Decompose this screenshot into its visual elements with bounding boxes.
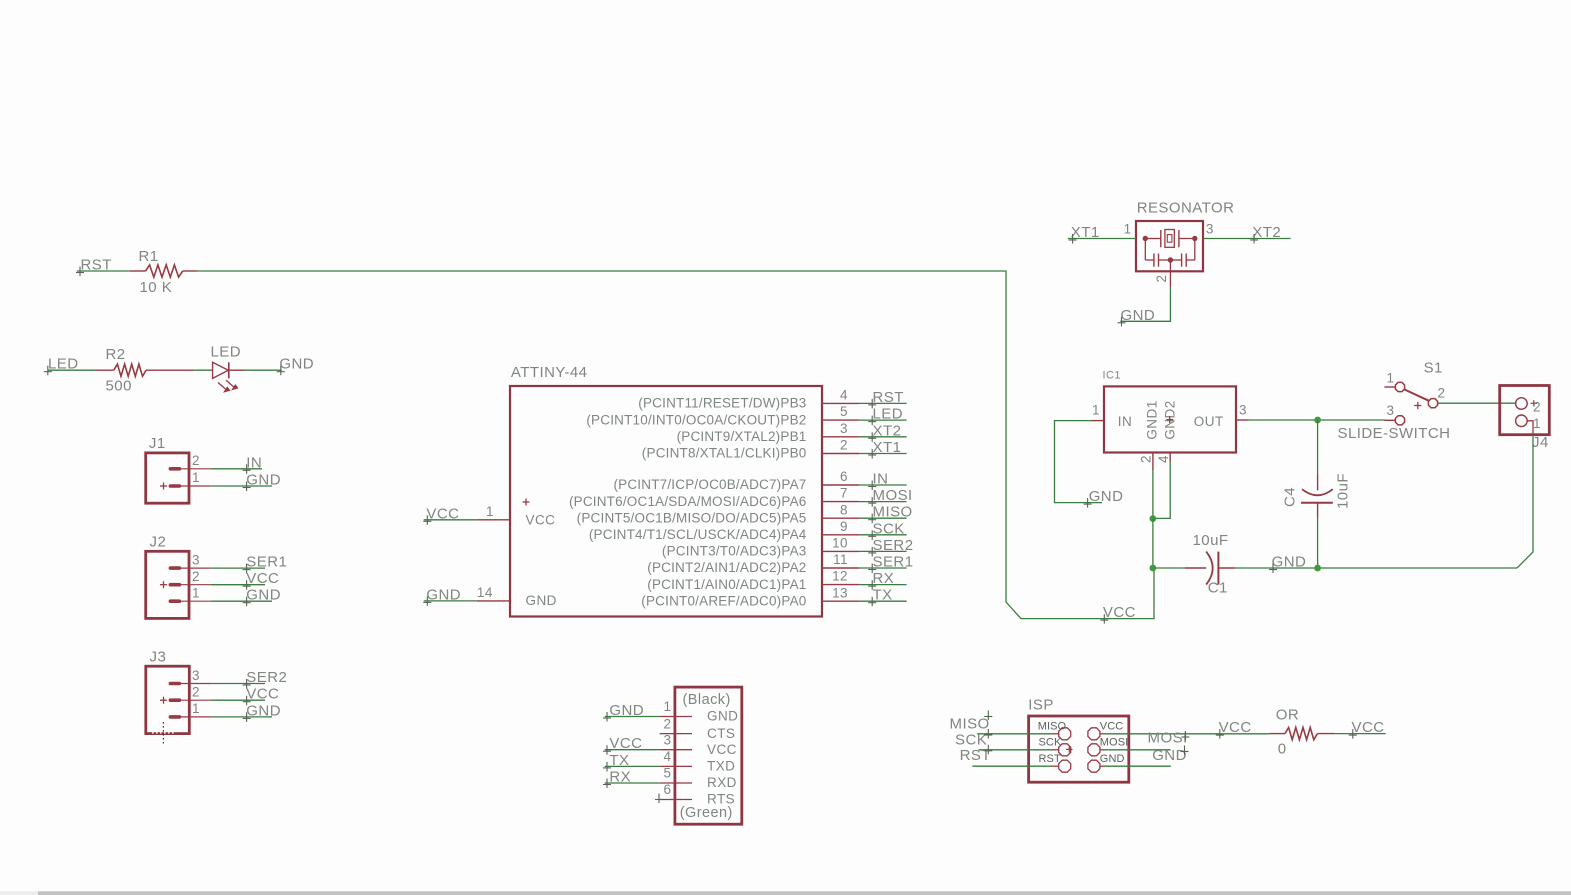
value 10uF (C4)	[1335, 473, 1352, 509]
svg-text:IC1: IC1	[1103, 370, 1121, 382]
svg-text:RX: RX	[873, 570, 895, 587]
wire J2 pin1 to GND	[211, 600, 272, 602]
net label RX (ATTINY-44)	[868, 570, 894, 590]
svg-text:3: 3	[1206, 222, 1214, 237]
svg-text:GND: GND	[1152, 747, 1187, 764]
svg-text:MOSI: MOSI	[1100, 737, 1129, 749]
net label MISO (ISP)	[950, 711, 993, 733]
svg-text:VCC: VCC	[1352, 719, 1385, 736]
svg-text:GND: GND	[707, 709, 738, 724]
net label LED	[44, 356, 79, 376]
svg-text:SCK: SCK	[955, 731, 987, 748]
wire OUT junction down to C4	[1317, 420, 1319, 475]
net label GND (U1 pin14)	[423, 586, 461, 606]
label (Black)	[683, 692, 731, 708]
wire net MOSI stub (ATTINY-44)	[859, 501, 906, 503]
svg-text:RXD: RXD	[707, 775, 737, 790]
svg-text:CTS: CTS	[707, 726, 735, 741]
wire J2 pin3 to SER1	[211, 567, 265, 569]
svg-text:MISO: MISO	[873, 504, 913, 521]
wire IC1 pin4 down	[1153, 462, 1170, 518]
svg-text:(PCINT9/XTAL2)PB1: (PCINT9/XTAL2)PB1	[677, 429, 807, 444]
net label LED (ATTINY-44)	[868, 406, 903, 426]
wire junction down to VCC node	[1152, 519, 1154, 568]
svg-text:ATTINY-44: ATTINY-44	[511, 364, 588, 381]
svg-text:GND: GND	[609, 702, 644, 719]
connector FTDI body	[675, 687, 742, 824]
svg-text:VCC: VCC	[426, 505, 459, 522]
svg-text:6: 6	[664, 782, 672, 797]
wire FTDI GND	[605, 716, 660, 718]
wire J3 pin1 to GND	[211, 716, 272, 718]
label SLIDE-SWITCH	[1338, 425, 1451, 442]
pin name GND inside U1	[526, 593, 557, 608]
connector J4	[1500, 386, 1550, 435]
net label XT1 (ATTINY-44)	[868, 439, 901, 459]
wire resonator pin3 to XT2	[1203, 238, 1291, 240]
svg-text:1: 1	[1124, 222, 1132, 237]
pin 14 GND (ATTINY-44)	[477, 585, 510, 601]
svg-text:6: 6	[840, 469, 848, 484]
label C4	[1282, 487, 1299, 507]
net label SER2 (ATTINY-44)	[868, 537, 913, 557]
pin number 3 (J2)	[192, 552, 200, 567]
pin name SCK (ISP)	[1039, 737, 1062, 749]
junction (OUT / C4)	[1314, 417, 1321, 424]
wire SCK to ISP	[979, 749, 1059, 751]
svg-text:8: 8	[840, 502, 848, 517]
wire FTDI TX	[605, 765, 660, 767]
svg-text:VCC: VCC	[1219, 719, 1252, 736]
svg-text:VCC: VCC	[1100, 721, 1124, 733]
svg-text:SER1: SER1	[873, 554, 914, 571]
pin 10 SER2 (ATTINY-44)	[662, 536, 859, 559]
svg-text:GND: GND	[1089, 488, 1124, 505]
svg-text:1: 1	[192, 701, 200, 716]
net label SER2	[243, 669, 288, 689]
switch S1	[1384, 382, 1437, 425]
pin 7 MOSI (ATTINY-44)	[569, 486, 859, 509]
resistor R1	[130, 265, 197, 277]
pin 2 (IC1)	[1139, 453, 1154, 471]
pin number 2 (J3)	[192, 685, 200, 700]
wire ISP VCC out	[1100, 733, 1270, 735]
pin 9 SCK (ATTINY-44)	[589, 519, 860, 542]
svg-text:4: 4	[1156, 455, 1171, 463]
svg-text:VCC: VCC	[246, 570, 279, 587]
label R2	[106, 346, 126, 363]
connector J3	[146, 666, 211, 743]
label ATTINY-44	[511, 364, 588, 381]
svg-text:RST: RST	[873, 389, 904, 406]
pin 13 TX (ATTINY-44)	[641, 585, 859, 608]
wire GND to U1 pin14	[424, 600, 477, 602]
svg-text:VCC: VCC	[707, 742, 737, 757]
label J1	[149, 435, 166, 452]
svg-text:5: 5	[840, 404, 848, 419]
pin 1 GND (FTDI)	[660, 699, 739, 724]
net label GND (LED row)	[277, 356, 314, 376]
svg-text:RST: RST	[960, 747, 991, 764]
pin name MISO (ISP)	[1038, 721, 1067, 733]
wire net LED stub (ATTINY-44)	[859, 419, 906, 421]
wire FTDI VCC	[605, 749, 660, 751]
svg-text:SER2: SER2	[873, 537, 914, 554]
net label VCC (FTDI)	[603, 735, 642, 755]
svg-text:GND: GND	[246, 587, 281, 604]
wire GND rail (right of C1)	[1235, 567, 1517, 569]
svg-text:7: 7	[840, 486, 848, 501]
svg-text:9: 9	[840, 519, 848, 534]
pin 2 CTS (FTDI)	[660, 716, 736, 741]
net label GND (J2)	[243, 587, 281, 607]
svg-text:VCC: VCC	[526, 512, 556, 527]
wire net SER1 stub (ATTINY-44)	[859, 567, 906, 569]
svg-text:XT1: XT1	[873, 439, 902, 456]
svg-text:XT2: XT2	[873, 422, 902, 439]
wire J3 pin3 to SER2	[211, 683, 265, 685]
wire ISP GND out	[1100, 765, 1171, 767]
svg-text:TXD: TXD	[707, 759, 735, 774]
svg-text:2: 2	[1438, 386, 1446, 401]
svg-text:(PCINT1/AIN0/ADC1)PA1: (PCINT1/AIN0/ADC1)PA1	[647, 577, 806, 592]
svg-text:500: 500	[106, 378, 132, 395]
pin 3 (IC1)	[1236, 403, 1249, 420]
svg-text:OUT: OUT	[1194, 414, 1224, 429]
net label GND (J1)	[243, 472, 281, 492]
wire GND rail (left of C1)	[1153, 567, 1185, 569]
junction (C4 / GND rail)	[1314, 565, 1321, 572]
net label MOSI (ATTINY-44)	[868, 487, 912, 507]
svg-text:IN: IN	[1118, 414, 1132, 429]
wire RST to R1	[77, 270, 130, 272]
svg-text:GND: GND	[526, 593, 557, 608]
svg-text:R1: R1	[139, 248, 159, 265]
pin number 2 (J2)	[192, 569, 200, 584]
svg-text:XT2: XT2	[1252, 224, 1281, 241]
junction (VCC node)	[1150, 565, 1157, 572]
svg-text:S1: S1	[1424, 360, 1443, 377]
LED (indicator diode)	[213, 362, 244, 392]
net label GND (rail)	[1269, 554, 1306, 574]
value 500	[106, 378, 132, 395]
svg-text:2: 2	[664, 716, 672, 731]
value 0 (OR)	[1278, 741, 1287, 758]
svg-text:IN: IN	[873, 471, 889, 488]
wire net TX stub (ATTINY-44)	[859, 600, 906, 602]
net label XT1	[1069, 224, 1100, 244]
wire XT1 to resonator pin1	[1068, 238, 1136, 240]
svg-text:GND: GND	[279, 356, 314, 373]
net label GND (FTDI)	[603, 702, 644, 722]
pin number 2 (S1)	[1438, 386, 1446, 401]
pin 5 RXD (FTDI)	[660, 766, 737, 791]
svg-text:1: 1	[192, 470, 200, 485]
wire OR to VCC	[1334, 733, 1386, 735]
net label TX (ATTINY-44)	[868, 587, 892, 607]
svg-text:C1: C1	[1208, 580, 1228, 597]
wire J1 pin2 to IN	[211, 468, 262, 470]
wire FTDI RX	[605, 782, 660, 784]
svg-text:IN: IN	[246, 454, 262, 471]
pin 6 IN (ATTINY-44)	[613, 469, 859, 492]
wire J2 pin2 to VCC	[211, 584, 265, 586]
net label VCC (left of OR)	[1216, 719, 1252, 739]
svg-text:GND: GND	[1100, 753, 1125, 765]
svg-text:GND: GND	[426, 586, 461, 603]
wire IC1 pin3 OUT to switch	[1249, 419, 1386, 421]
pin number 1 (J2)	[192, 586, 200, 601]
svg-text:GND1: GND1	[1145, 400, 1160, 439]
svg-text:(Black): (Black)	[683, 692, 731, 708]
wire VCC to U1 pin1	[424, 519, 477, 521]
pin name MOSI (ISP)	[1100, 737, 1129, 749]
svg-text:RTS: RTS	[707, 792, 735, 807]
svg-text:MISO: MISO	[1038, 721, 1067, 733]
label (Green)	[680, 805, 733, 821]
svg-text:0: 0	[1278, 741, 1287, 758]
wire IC1 pin1 to GND	[1055, 421, 1103, 503]
connector J1	[146, 453, 211, 503]
wire J3 pin2 to VCC	[211, 699, 265, 701]
svg-text:4: 4	[840, 388, 848, 403]
net label GND (IC1 input)	[1084, 488, 1124, 508]
pin number 2 (resonator)	[1154, 275, 1169, 283]
connector J2	[146, 551, 211, 618]
wire net RST stub (ATTINY-44)	[859, 402, 906, 404]
wire net MISO stub (ATTINY-44)	[859, 517, 906, 519]
net label RX (FTDI)	[603, 769, 631, 789]
resistor OR (0 ohm)	[1269, 728, 1334, 740]
svg-text:3: 3	[192, 668, 200, 683]
pin number 1 (J3)	[192, 701, 200, 716]
svg-text:J1: J1	[149, 435, 166, 452]
label C1	[1208, 580, 1228, 597]
wire net XT2 stub (ATTINY-44)	[859, 436, 906, 438]
svg-text:SLIDE-SWITCH: SLIDE-SWITCH	[1338, 425, 1451, 442]
net label IN (ATTINY-44)	[868, 471, 888, 491]
pin name GND2 (IC1)	[1163, 400, 1178, 439]
label LED (device name)	[211, 344, 242, 361]
svg-text:VCC: VCC	[1103, 604, 1136, 621]
net label RST (ATTINY-44)	[868, 389, 904, 409]
net label VCC (right of OR)	[1349, 719, 1385, 739]
cross at FTDI RTS stub	[655, 794, 663, 804]
svg-text:3: 3	[192, 552, 200, 567]
svg-text:(PCINT3/T0/ADC3)PA3: (PCINT3/T0/ADC3)PA3	[662, 544, 807, 559]
svg-text:10: 10	[832, 536, 848, 551]
svg-text:VCC: VCC	[609, 735, 642, 752]
svg-text:10uF: 10uF	[1335, 473, 1352, 509]
pin number 3 (S1)	[1387, 403, 1395, 418]
capacitor C1	[1185, 552, 1235, 585]
svg-text:LED: LED	[211, 344, 242, 361]
wire net IN stub (ATTINY-44)	[859, 484, 906, 486]
wire net SCK stub (ATTINY-44)	[859, 534, 906, 536]
bottom scrollbar bar	[0, 891, 1571, 895]
svg-text:GND: GND	[1121, 307, 1156, 324]
net label GND (ISP out)	[1152, 746, 1188, 765]
svg-text:(Green): (Green)	[680, 805, 733, 821]
svg-text:12: 12	[832, 569, 848, 584]
svg-text:3: 3	[840, 421, 848, 436]
svg-text:GND: GND	[246, 472, 281, 489]
svg-text:(PCINT5/OC1B/MISO/DO/ADC5)PA5: (PCINT5/OC1B/MISO/DO/ADC5)PA5	[577, 510, 807, 525]
svg-text:11: 11	[833, 552, 848, 567]
wire LED1 to GND	[244, 369, 282, 371]
svg-text:LED: LED	[873, 406, 904, 423]
label IC1	[1103, 370, 1121, 382]
net label GND (J3)	[243, 702, 281, 722]
net label GND (resonator)	[1118, 307, 1156, 327]
pin 4 TXD (FTDI)	[660, 749, 736, 774]
pin 2 XT1 (ATTINY-44)	[642, 438, 860, 461]
svg-text:SER2: SER2	[246, 669, 287, 686]
svg-text:(PCINT0/AREF/ADC0)PA0: (PCINT0/AREF/ADC0)PA0	[641, 593, 806, 608]
resistor R2	[95, 364, 194, 376]
pin name OUT (IC1)	[1194, 414, 1224, 429]
net label SER1	[243, 554, 288, 574]
svg-text:GND: GND	[1272, 554, 1307, 571]
capacitor C4	[1301, 475, 1333, 518]
svg-text:10uF: 10uF	[1193, 532, 1229, 549]
svg-text:(PCINT7/ICP/OC0B/ADC7)PA7: (PCINT7/ICP/OC0B/ADC7)PA7	[613, 477, 806, 492]
pin 12 RX (ATTINY-44)	[647, 569, 859, 592]
svg-text:13: 13	[832, 585, 848, 600]
label J4	[1532, 434, 1549, 451]
svg-text:1: 1	[664, 699, 672, 714]
pin 8 MISO (ATTINY-44)	[577, 502, 860, 525]
pin number 1 (S1)	[1387, 371, 1395, 386]
wire R1 to VCC (long run)	[197, 271, 1154, 619]
svg-text:(PCINT6/OC1A/SDA/MOSI/ADC6)PA6: (PCINT6/OC1A/SDA/MOSI/ADC6)PA6	[569, 494, 807, 509]
svg-text:MOSI: MOSI	[1148, 730, 1188, 747]
svg-text:4: 4	[664, 749, 672, 764]
svg-text:MISO: MISO	[950, 715, 990, 732]
wire IC1 pin2 down	[1152, 470, 1154, 519]
label S1	[1424, 360, 1443, 377]
pin 3 VCC (FTDI)	[660, 732, 737, 757]
wire C4 to GND rail	[1317, 518, 1319, 568]
svg-text:(PCINT11/RESET/DW)PB3: (PCINT11/RESET/DW)PB3	[638, 396, 806, 411]
regulator IC1 body	[1104, 386, 1236, 452]
svg-text:SER1: SER1	[246, 554, 287, 571]
pin name IN (IC1)	[1118, 414, 1132, 429]
net label SCK (ATTINY-44)	[868, 520, 905, 540]
IC ATTINY-44 body	[510, 386, 822, 617]
wire net RX stub (ATTINY-44)	[859, 584, 906, 586]
svg-text:3: 3	[664, 732, 672, 747]
label R1	[139, 248, 159, 265]
svg-text:2: 2	[1139, 455, 1154, 463]
svg-text:1: 1	[1092, 403, 1100, 418]
net label SER1 (ATTINY-44)	[868, 554, 913, 574]
svg-text:GND: GND	[246, 702, 281, 719]
pin 3 XT2 (ATTINY-44)	[677, 421, 860, 444]
svg-text:RX: RX	[609, 769, 631, 786]
pin name VCC (ISP)	[1100, 721, 1124, 733]
svg-text:R2: R2	[106, 346, 126, 363]
pin number 3 (J3)	[192, 668, 200, 683]
wire net XT1 stub (ATTINY-44)	[859, 453, 906, 455]
pin 11 SER1 (ATTINY-44)	[647, 552, 859, 575]
pin name RST (ISP)	[1039, 753, 1061, 765]
wire J4 pin1 to GND rail	[1517, 435, 1533, 568]
svg-text:TX: TX	[609, 752, 629, 769]
svg-text:MOSI: MOSI	[873, 487, 913, 504]
pin 4 RST (ATTINY-44)	[638, 388, 859, 411]
svg-text:J4: J4	[1532, 434, 1549, 451]
label RESONATOR	[1137, 200, 1235, 217]
pin number 1 (J1)	[192, 470, 200, 485]
svg-text:2: 2	[192, 685, 200, 700]
svg-text:2: 2	[840, 438, 848, 453]
svg-text:1: 1	[1533, 416, 1541, 431]
svg-text:C4: C4	[1282, 487, 1299, 507]
connector ISP body	[1029, 716, 1129, 782]
wire MISO to ISP	[977, 733, 1058, 735]
wire J1 pin1 to GND	[211, 485, 272, 487]
net label XT2	[1250, 224, 1281, 244]
pin 5 LED (ATTINY-44)	[586, 404, 859, 427]
svg-text:2: 2	[1533, 399, 1541, 414]
svg-text:(PCINT4/T1/SCL/USCK/ADC4)PA4: (PCINT4/T1/SCL/USCK/ADC4)PA4	[589, 527, 807, 542]
svg-text:3: 3	[1239, 403, 1247, 418]
label ISP	[1028, 697, 1054, 714]
wire ISP MOSI out	[1100, 749, 1171, 751]
value 10 K	[140, 279, 173, 296]
svg-text:J2: J2	[150, 533, 167, 550]
pin 6 RTS (FTDI)	[660, 782, 735, 807]
net label MISO (ATTINY-44)	[868, 504, 912, 524]
svg-text:2: 2	[192, 569, 200, 584]
svg-text:SCK: SCK	[873, 520, 905, 537]
net label MOSI (ISP out)	[1148, 730, 1190, 747]
svg-text:2: 2	[1154, 275, 1169, 283]
svg-text:TX: TX	[873, 587, 893, 604]
pin number 2 (J4)	[1533, 399, 1541, 414]
pin name GND (ISP)	[1100, 753, 1125, 765]
net label IN	[243, 454, 263, 474]
svg-text:(PCINT2/AIN1/ADC2)PA2: (PCINT2/AIN1/ADC2)PA2	[647, 560, 806, 575]
net label XT2 (ATTINY-44)	[868, 422, 901, 442]
svg-text:1: 1	[1387, 371, 1395, 386]
wire R2 to LED1	[194, 369, 213, 371]
net label VCC (J2)	[243, 570, 280, 590]
pin 1 VCC (ATTINY-44)	[477, 504, 510, 520]
svg-text:1: 1	[486, 504, 494, 519]
wire resonator pin2 to GND	[1120, 288, 1170, 322]
pin name GND1 (IC1)	[1145, 400, 1160, 439]
junction (IC1 ground pins)	[1150, 515, 1157, 522]
svg-text:2: 2	[192, 453, 200, 468]
net label VCC (U1 pin1)	[423, 505, 459, 525]
svg-text:VCC: VCC	[246, 686, 279, 703]
pin name VCC inside U1	[523, 499, 556, 528]
net label TX (FTDI)	[603, 752, 629, 772]
pin number 1 (J4)	[1533, 416, 1541, 431]
svg-text:OR: OR	[1276, 707, 1299, 724]
svg-text:SCK: SCK	[1039, 737, 1062, 749]
svg-text:RESONATOR: RESONATOR	[1137, 200, 1235, 217]
svg-text:(PCINT10/INT0/OC0A/CKOUT)PB2: (PCINT10/INT0/OC0A/CKOUT)PB2	[586, 412, 806, 427]
svg-text:ISP: ISP	[1028, 697, 1054, 714]
value 10uF (C1)	[1193, 532, 1229, 549]
net label VCC (bottom of pull-up run)	[1100, 604, 1136, 624]
net label RST (ISP)	[960, 745, 993, 764]
pin 4 (IC1)	[1156, 453, 1171, 463]
net label VCC (J3)	[243, 686, 280, 706]
